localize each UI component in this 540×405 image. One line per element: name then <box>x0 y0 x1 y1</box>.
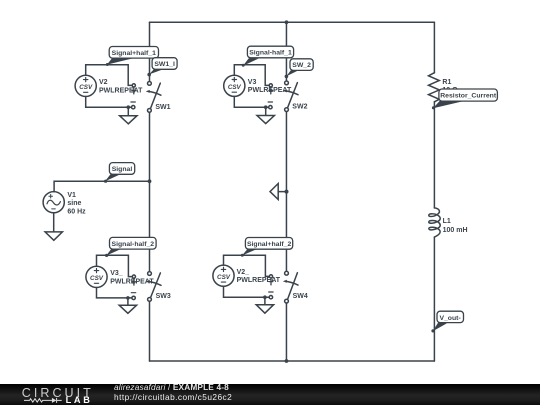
svg-text:sine: sine <box>67 200 81 207</box>
junction V3 minus / ground <box>264 105 268 109</box>
voltage source V3 (PWL CSV) <box>224 75 245 96</box>
CircuitLab logo resistor-diode glyph <box>24 397 63 404</box>
svg-text:CSV: CSV <box>217 274 231 281</box>
svg-text:PWLREPEAT: PWLREPEAT <box>237 277 281 284</box>
node flag SW_2 <box>285 59 314 78</box>
svg-text:SW3: SW3 <box>156 293 171 300</box>
junction V2 minus / ground <box>127 105 131 109</box>
svg-text:SW_2: SW_2 <box>292 62 311 69</box>
svg-text:60 Hz: 60 Hz <box>67 208 86 215</box>
wire right bus lower <box>433 237 435 361</box>
wire left bus upper <box>149 22 151 81</box>
svg-text:Signal-half_2: Signal-half_2 <box>112 241 155 248</box>
wire V3_ minus to SW3 control minus <box>97 288 132 298</box>
current direction probe arrow on middle bus <box>270 184 286 200</box>
footer url line <box>114 393 232 403</box>
node flag Signal-half_1 <box>242 46 294 67</box>
wire left bus lower <box>149 301 151 361</box>
wire V2_ minus to SW4 control minus <box>224 286 270 297</box>
node flag SW1_I <box>147 58 177 77</box>
voltage source V2 (PWL CSV) <box>75 75 96 96</box>
resistor R1 <box>429 73 440 102</box>
svg-text:CSV: CSV <box>90 275 104 282</box>
wire V2_ plus to SW4 control plus <box>224 255 270 276</box>
svg-text:Signal+half_1: Signal+half_1 <box>112 50 157 57</box>
ground (below V3) <box>257 107 274 123</box>
svg-text:Signal-half_1: Signal-half_1 <box>249 50 292 57</box>
svg-text:V2: V2 <box>99 79 108 86</box>
svg-text:SW4: SW4 <box>293 293 308 300</box>
CircuitLab logo wordmark CIRCUIT <box>22 388 94 399</box>
wire right bus middle <box>433 102 435 208</box>
voltage source V1 (sine) <box>43 192 64 213</box>
ground (below V2) <box>120 107 137 124</box>
junction V3_ minus / ground <box>126 296 130 300</box>
footer bar <box>0 384 540 405</box>
wire left bus middle <box>149 112 151 271</box>
svg-text:V_out-: V_out- <box>439 315 460 322</box>
ground (below V3_) <box>119 298 136 313</box>
node flag V_out- <box>431 311 463 332</box>
svg-text:R1: R1 <box>442 79 451 86</box>
svg-text:CSV: CSV <box>79 84 93 91</box>
node flag Signal+half_1 <box>106 47 159 67</box>
svg-text:L1: L1 <box>443 218 451 225</box>
svg-text:Signal: Signal <box>112 166 133 173</box>
svg-text:SW2: SW2 <box>292 103 307 110</box>
wire bottom rail <box>150 360 435 362</box>
wire V3 minus to SW2 control minus <box>234 96 268 107</box>
junction V1 wire / left bus <box>148 179 152 183</box>
svg-text:PWLREPEAT: PWLREPEAT <box>99 87 143 94</box>
wire middle bus upper <box>285 22 287 81</box>
footer title line <box>114 383 229 393</box>
wire right bus upper <box>433 22 435 73</box>
junction top rail / middle bus <box>285 20 289 24</box>
node flag Resistor_Current <box>432 89 498 109</box>
junction probe / middle bus <box>285 190 289 194</box>
switch SW1 (voltage controlled) <box>131 82 161 113</box>
inductor L1 <box>429 208 440 237</box>
wire V1 to left bus <box>54 181 149 191</box>
junction V2_ minus / ground <box>263 295 267 299</box>
svg-text:100 mH: 100 mH <box>443 227 468 234</box>
wire middle bus middle <box>285 111 287 271</box>
wire V2 plus to SW1 control plus <box>86 65 133 86</box>
svg-text:SW1: SW1 <box>155 104 170 111</box>
svg-text:Signal+half_2: Signal+half_2 <box>247 241 292 248</box>
node flag Signal <box>104 163 135 183</box>
voltage source V2_ (PWL CSV) <box>213 265 234 286</box>
CircuitLab logo wordmark LAB <box>66 396 93 404</box>
ground (below V1) <box>45 213 62 241</box>
junction bottom rail / middle bus <box>285 359 289 363</box>
svg-text:SW1_I: SW1_I <box>154 61 175 68</box>
switch SW3 (voltage controlled) <box>131 272 161 302</box>
node flag Signal+half_2 <box>241 238 293 257</box>
svg-text:V3: V3 <box>248 79 257 86</box>
switch SW2 (voltage controlled) <box>268 81 298 112</box>
voltage source V3_ (PWL CSV) <box>86 266 107 287</box>
wire V3 plus to SW2 control plus <box>234 65 269 86</box>
svg-text:V2_: V2_ <box>237 269 250 276</box>
wire top rail <box>150 21 435 23</box>
node flag Signal-half_2 <box>105 237 156 257</box>
svg-text:V1: V1 <box>67 192 76 199</box>
ground (below V2_) <box>256 297 273 313</box>
wire V2 minus to SW1 control minus <box>86 97 132 108</box>
svg-text:V3_: V3_ <box>110 270 123 277</box>
wire V3_ plus to SW3 control plus <box>97 255 133 276</box>
wire middle bus lower <box>285 303 287 361</box>
svg-text:CSV: CSV <box>228 84 242 91</box>
svg-text:Resistor_Current: Resistor_Current <box>440 93 497 100</box>
switch SW4 (voltage controlled) <box>269 271 298 303</box>
